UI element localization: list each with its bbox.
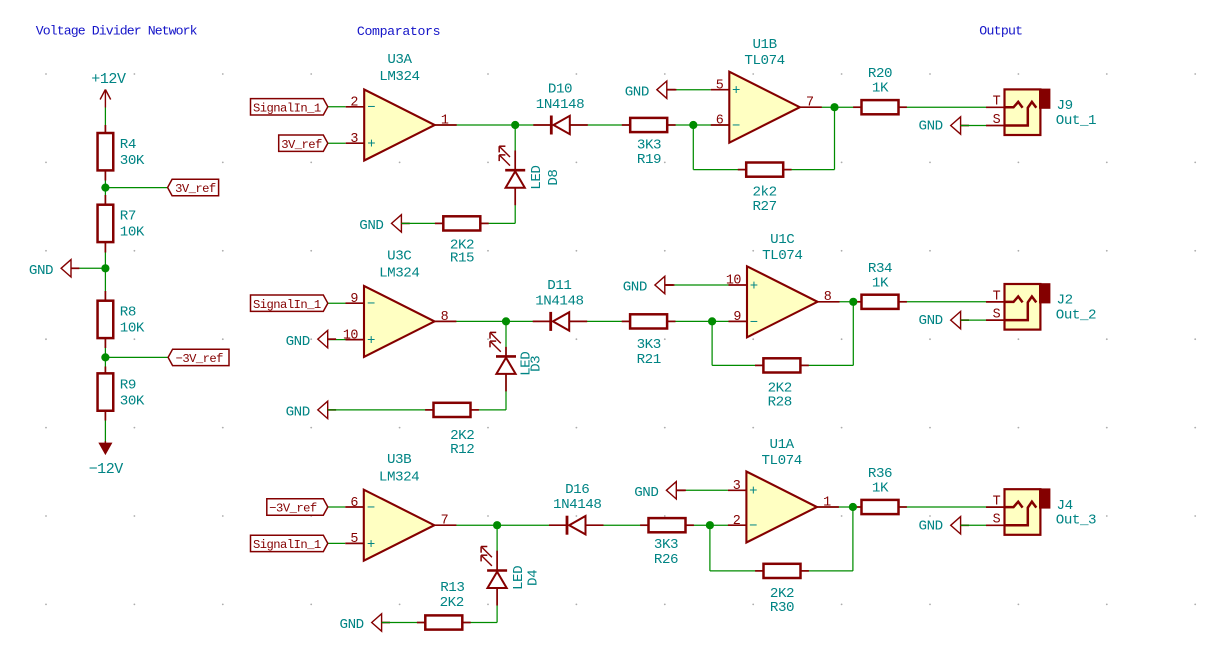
svg-text:Out_3: Out_3: [1056, 513, 1096, 529]
svg-text:1N4148: 1N4148: [553, 497, 601, 513]
svg-text:−12V: −12V: [89, 461, 124, 478]
svg-text:1K: 1K: [872, 81, 889, 97]
svg-text:2: 2: [733, 514, 741, 529]
svg-text:1N4148: 1N4148: [536, 97, 584, 113]
svg-text:GND: GND: [623, 280, 647, 296]
svg-text:10: 10: [343, 328, 359, 343]
svg-text:GND: GND: [919, 518, 943, 534]
svg-text:GND: GND: [286, 405, 310, 421]
svg-text:10: 10: [726, 274, 742, 289]
svg-text:D4: D4: [526, 570, 542, 586]
svg-text:Output: Output: [979, 23, 1022, 38]
svg-text:GND: GND: [634, 485, 658, 501]
svg-text:U3B: U3B: [387, 452, 411, 468]
svg-text:GND: GND: [340, 617, 364, 633]
svg-text:LM324: LM324: [379, 469, 419, 485]
svg-text:−3V_ref: −3V_ref: [176, 352, 224, 366]
svg-text:D8: D8: [546, 170, 562, 186]
svg-text:R13: R13: [440, 580, 464, 596]
svg-text:−: −: [367, 100, 375, 116]
svg-text:U3C: U3C: [387, 248, 411, 264]
svg-text:2K2: 2K2: [440, 595, 464, 611]
svg-text:R12: R12: [450, 442, 474, 458]
svg-text:GND: GND: [919, 119, 943, 135]
svg-text:+: +: [367, 537, 375, 553]
svg-text:GND: GND: [359, 218, 383, 234]
svg-text:30K: 30K: [120, 153, 145, 169]
svg-text:R21: R21: [637, 352, 661, 368]
svg-text:Out_2: Out_2: [1056, 308, 1096, 324]
svg-text:GND: GND: [29, 263, 53, 279]
svg-text:GND: GND: [919, 313, 943, 329]
svg-text:−: −: [367, 500, 375, 516]
svg-text:R15: R15: [450, 250, 474, 266]
svg-text:8: 8: [824, 290, 832, 305]
svg-text:+: +: [750, 278, 758, 294]
svg-text:Comparators: Comparators: [357, 24, 440, 39]
svg-text:SignalIn_1: SignalIn_1: [253, 101, 321, 115]
svg-text:Voltage Divider Network: Voltage Divider Network: [36, 24, 198, 39]
svg-text:D10: D10: [548, 82, 572, 98]
svg-text:J9: J9: [1057, 98, 1073, 114]
svg-text:SignalIn_1: SignalIn_1: [253, 298, 321, 312]
svg-text:+: +: [732, 83, 740, 99]
svg-text:30K: 30K: [120, 394, 145, 410]
svg-text:−3V_ref: −3V_ref: [269, 502, 317, 516]
svg-text:2: 2: [350, 96, 358, 111]
svg-text:8: 8: [441, 310, 449, 325]
svg-text:U1C: U1C: [770, 232, 794, 248]
svg-text:10K: 10K: [120, 321, 145, 337]
svg-text:6: 6: [716, 114, 724, 129]
svg-text:7: 7: [441, 514, 449, 529]
svg-text:D11: D11: [547, 278, 571, 294]
svg-text:LED: LED: [529, 165, 545, 189]
svg-text:1K: 1K: [872, 275, 889, 291]
svg-text:Out_1: Out_1: [1056, 113, 1096, 129]
svg-text:R30: R30: [770, 600, 794, 616]
svg-text:U1B: U1B: [752, 37, 776, 53]
svg-text:LM324: LM324: [379, 266, 419, 282]
svg-text:U1A: U1A: [770, 437, 795, 453]
svg-text:+: +: [749, 484, 757, 500]
svg-text:R9: R9: [120, 378, 136, 394]
svg-text:7: 7: [806, 96, 814, 111]
svg-text:R27: R27: [752, 199, 776, 215]
svg-text:10K: 10K: [120, 225, 145, 241]
svg-text:5: 5: [350, 532, 358, 547]
svg-text:3: 3: [733, 479, 741, 494]
svg-text:−: −: [749, 519, 757, 535]
svg-text:D3: D3: [528, 356, 544, 372]
svg-text:5: 5: [716, 78, 724, 93]
svg-text:6: 6: [350, 496, 358, 511]
svg-text:SignalIn_1: SignalIn_1: [253, 538, 321, 552]
svg-text:3V_ref: 3V_ref: [175, 182, 216, 196]
svg-text:R28: R28: [768, 395, 792, 411]
svg-text:−: −: [732, 118, 740, 134]
svg-text:3K3: 3K3: [637, 337, 661, 353]
svg-text:J2: J2: [1057, 293, 1073, 309]
svg-text:+12V: +12V: [91, 71, 126, 88]
svg-text:LM324: LM324: [379, 69, 419, 85]
svg-text:TL074: TL074: [744, 53, 784, 69]
svg-text:R26: R26: [654, 552, 678, 568]
svg-text:+: +: [367, 333, 375, 349]
svg-text:3V_ref: 3V_ref: [281, 138, 322, 152]
svg-text:1: 1: [441, 113, 449, 128]
svg-text:GND: GND: [286, 334, 310, 350]
svg-text:R7: R7: [120, 209, 136, 225]
svg-text:9: 9: [350, 292, 358, 307]
svg-text:R8: R8: [120, 305, 136, 321]
svg-text:D16: D16: [565, 482, 589, 498]
svg-text:−: −: [367, 297, 375, 313]
svg-text:+: +: [367, 137, 375, 153]
svg-text:3: 3: [350, 132, 358, 147]
svg-text:TL074: TL074: [762, 248, 802, 264]
svg-text:R19: R19: [637, 152, 661, 168]
svg-text:GND: GND: [625, 84, 649, 100]
svg-text:R4: R4: [120, 137, 136, 153]
svg-text:1N4148: 1N4148: [535, 293, 583, 309]
svg-text:1: 1: [823, 495, 831, 510]
svg-text:−: −: [750, 315, 758, 331]
svg-text:3K3: 3K3: [654, 537, 678, 553]
svg-text:TL074: TL074: [761, 453, 801, 469]
svg-text:U3A: U3A: [387, 52, 412, 68]
svg-text:J4: J4: [1057, 498, 1073, 514]
svg-text:LED: LED: [511, 566, 527, 590]
svg-text:1K: 1K: [872, 481, 889, 497]
svg-text:9: 9: [733, 310, 741, 325]
